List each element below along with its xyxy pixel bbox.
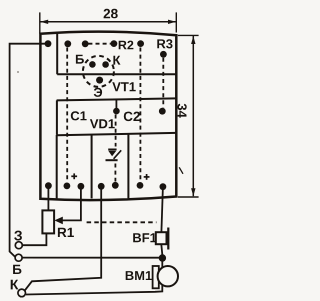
transistor VT1 body outline [83, 56, 114, 87]
resistor R1 body [42, 210, 54, 233]
wire BF1 to junction [161, 244, 162, 254]
sounder BF1 body [156, 232, 167, 244]
dimension 34 arrow top [191, 36, 195, 44]
terminal Z circle [15, 242, 22, 249]
resistor R3 label [157, 39, 172, 48]
microphone BM1 label [126, 271, 152, 280]
wire dashed column from R2 right down [139, 48, 141, 182]
dimension 34 arrow bottom [191, 188, 195, 196]
dimension 28 line [40, 21, 176, 23]
wire dashed diode lower lead [114, 164, 116, 182]
board outline [40, 32, 176, 201]
dimension 28 arrow right [168, 20, 176, 24]
node hole bottom row 3 [78, 183, 85, 190]
wire from hole4 down to collector rail [25, 187, 102, 291]
node hole R2 right [137, 40, 144, 47]
terminal B label [13, 265, 21, 274]
node hole bottom row 5 [112, 182, 119, 189]
terminal B circle [15, 254, 22, 261]
label emitter [94, 88, 102, 97]
dimension 34 extension line top [178, 34, 199, 36]
inner partition: bottom edge of C1/VD1/C2 box [57, 133, 176, 135]
node hole right of C2 [159, 108, 166, 115]
terminal K circle [18, 289, 26, 297]
node hole bottom row 6 [137, 182, 144, 189]
transistor VT1 base hole [89, 61, 96, 68]
paper speck [17, 71, 19, 73]
node hole bottom row 2 [64, 183, 71, 190]
capacitor C2 label [124, 112, 140, 122]
label base [76, 55, 84, 64]
node hole top row 3 [82, 40, 89, 47]
transistor VT1 emitter hole [96, 77, 103, 84]
resistor R1 label [58, 228, 74, 237]
microphone BM1 body [158, 266, 178, 286]
inner partition: lower-left vertical [56, 135, 58, 198]
wire from hole1 down to R1 [47, 186, 49, 210]
node hole top row 2 [64, 40, 71, 47]
inner partition: line under transistor row [57, 73, 176, 75]
node hole bottom row 7 [160, 183, 167, 190]
junction node [159, 254, 166, 261]
dimension 34 line [192, 36, 194, 196]
node hole R3 [160, 51, 167, 58]
inner partition: lower-right vertical [127, 134, 129, 198]
wire from hole3 to R1 wiper [62, 187, 81, 221]
wire dashed column from R3 hole down [162, 58, 164, 108]
terminal Z label [14, 231, 22, 241]
dimension 28 arrow left [40, 20, 48, 24]
wire dashed jumper R2 left [88, 43, 110, 45]
inner partition: top-left box left edge [56, 32, 58, 75]
stray mark [179, 167, 183, 174]
terminal K label [11, 280, 19, 290]
wire from hole7 down to BF1 [161, 187, 163, 232]
transistor VT1 label [112, 82, 135, 91]
microphone BM1 bar [153, 266, 159, 288]
inner partition: C1 box left edge [56, 100, 58, 134]
inner partition: top edge of C1/VD1/C2 box [57, 98, 176, 100]
dimension label 28 [104, 9, 118, 18]
diode VD1 label [90, 119, 115, 128]
node hole R2 left [111, 40, 118, 47]
arrow into R1 [54, 217, 62, 225]
dimension 28 extension line right [175, 12, 177, 32]
terminal wire base [22, 257, 159, 259]
node hole top row 1 [45, 40, 52, 47]
polarity plus left [71, 173, 77, 179]
wire BM1 bottom to collector terminal [26, 285, 163, 294]
wire dashed diode upper lead [115, 115, 117, 147]
label collector [113, 56, 120, 65]
sounder BF1 label [133, 233, 156, 242]
node hole bottom row 4 [98, 183, 105, 190]
wire junction to BM1 [161, 261, 163, 267]
diode VD1 symbol [106, 149, 122, 160]
dimension 28 extension line left [39, 12, 41, 33]
wire dashed column from hole 2 down to capacitor plus hole [66, 48, 68, 183]
dimension 34 extension line bottom [178, 196, 199, 198]
node stub middle [115, 100, 117, 111]
wire terminal Z to R1 [22, 233, 46, 245]
wire dashed bottom jumper [87, 221, 157, 223]
wire from top-left hole to left rail [10, 44, 48, 257]
sounder BF1 side bar [167, 228, 169, 250]
capacitor C1 label [71, 111, 87, 120]
node hole middle [113, 108, 120, 115]
polarity plus right [144, 174, 150, 180]
dimension label 34 [178, 104, 187, 118]
inner partition: lower-middle vertical [91, 135, 93, 199]
transistor VT1 collector hole [102, 61, 109, 68]
resistor R2 label [119, 41, 134, 50]
node hole bottom row 1 [45, 182, 52, 189]
